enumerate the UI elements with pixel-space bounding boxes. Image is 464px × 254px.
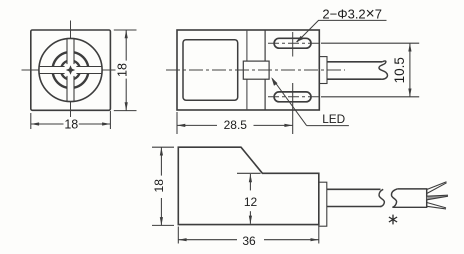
label 2-Phi3.2x7 leader — [297, 20, 319, 42]
dimension 10.5 dim line — [409, 43, 411, 97]
svg-text:18: 18 — [116, 63, 130, 77]
top view body — [177, 30, 319, 110]
wire fan — [427, 182, 448, 209]
mounting slot bottom — [274, 92, 311, 102]
dimension 18 front bottom dim line — [31, 123, 64, 125]
cable end piece bottom view — [392, 189, 426, 207]
dimension 12 dim line — [249, 174, 251, 224]
top view clamp band left edge — [246, 30, 248, 110]
svg-text:2−Φ3.2×7: 2−Φ3.2×7 — [322, 5, 382, 22]
asterisk cable note — [389, 215, 397, 225]
extension 10.5 bottom — [321, 96, 419, 98]
front view horizontal centerline — [22, 69, 116, 71]
dimension 28.5 right extension line — [292, 83, 294, 134]
label LED underline — [307, 125, 349, 127]
cable bottom view bottom line — [327, 206, 382, 208]
mounting slot top — [274, 38, 311, 48]
cable top view bottom line — [327, 78, 382, 80]
dimension 18 bottom view extension lines — [152, 147, 174, 225]
slot centerline horizontal bottom — [268, 96, 319, 98]
sensing face cross channel white fill — [39, 39, 101, 101]
top view sensing face square — [183, 40, 238, 100]
svg-text:28.5: 28.5 — [224, 118, 248, 132]
dimension 36 dim line — [178, 239, 237, 241]
cable top view top line — [327, 61, 382, 63]
svg-text:10.5: 10.5 — [392, 57, 407, 83]
dimension 28.5 dim line — [177, 124, 293, 126]
sensing face middle arcs — [53, 52, 88, 87]
label LED leader — [272, 79, 306, 126]
slot centerline horizontal top — [268, 42, 319, 44]
sensing face center star — [66, 65, 75, 74]
dimension 18 front right dim line — [125, 30, 127, 61]
front view body square — [31, 30, 111, 110]
cable gland top view — [319, 57, 327, 84]
cable bottom view top line — [327, 188, 381, 190]
dimension 18 front right extension lines — [114, 30, 137, 111]
dimension 18 front bottom extension lines — [31, 111, 111, 129]
svg-text:18: 18 — [64, 118, 78, 132]
cable gland bottom view — [319, 182, 327, 226]
svg-text:LED: LED — [322, 112, 345, 126]
top view clamp band right edge — [264, 30, 266, 110]
svg-text:36: 36 — [242, 234, 256, 248]
bottom view body profile — [178, 147, 318, 224]
LED window — [243, 61, 269, 79]
front view vertical centerline — [70, 21, 72, 118]
sensing face inner arcs — [62, 61, 80, 79]
cable break squiggle 1 bottom view — [379, 189, 384, 206]
slot centerline vertical top — [292, 32, 294, 57]
top view centerline — [166, 69, 345, 71]
dimension 12 top bar — [237, 172, 261, 174]
dimension 28.5 left extension line — [176, 112, 178, 134]
extension 10.5 top — [321, 42, 419, 44]
sensing face outer circle — [39, 38, 102, 101]
cable break squiggle top view — [379, 61, 388, 79]
svg-text:18: 18 — [152, 179, 166, 193]
svg-text:12: 12 — [244, 195, 258, 209]
dimension 36 extension lines — [178, 227, 318, 244]
dimension 18 bottom view dim line — [160, 147, 162, 175]
label 2-Phi3.2x7 underline — [318, 19, 387, 21]
cable break squiggle 2 bottom view — [391, 189, 397, 207]
sensing face cross channel edges — [40, 39, 102, 101]
